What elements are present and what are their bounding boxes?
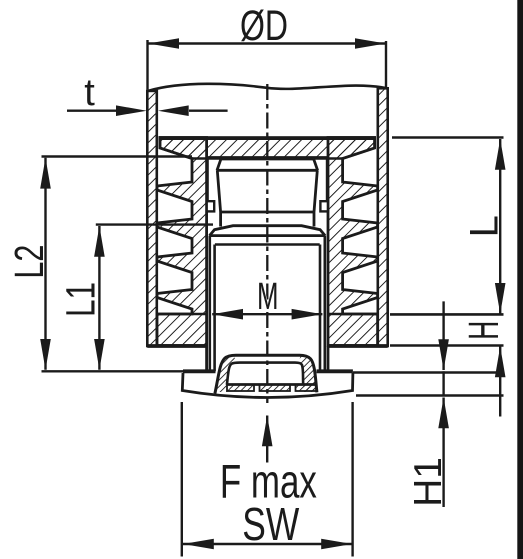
svg-text:ØD: ØD [240,2,288,50]
svg-text:L1: L1 [58,282,104,317]
dim t arrows [116,105,147,116]
dim L line [499,139,501,314]
sleeve lip left [207,201,215,211]
plate top edge (heavy) [183,369,353,373]
threaded stud lines [210,236,325,372]
dim H lower arrow and leader [495,347,506,378]
dim L2 arrows [40,158,51,189]
centerline [266,84,268,403]
socket band hatched segments [227,385,254,392]
tube wall right (hatched section) [378,88,388,346]
dim L1 arrows [94,226,105,257]
svg-text:H1: H1 [407,457,450,507]
block top level lines [157,313,504,316]
foot dome outer [215,355,317,393]
dim H extension line (tube bottom level) [390,344,504,346]
tube/insert bottom edge (heavy) [147,344,387,348]
dim L1 extension line [96,223,213,225]
socket band top line [228,383,317,386]
svg-text:SW: SW [242,498,299,550]
bottom reference line (plate top + extensions) [42,371,504,372]
svg-text:H: H [460,321,508,340]
plate bottom reference line [356,394,504,396]
dim L extension line top right [392,136,504,138]
thread shoulder line [215,243,320,245]
right page border bar [517,0,523,559]
insert left comb (ribs, hatched) [157,138,207,346]
nut skirt [210,226,326,236]
dim ØD extension lines [148,40,387,90]
dim L arrows [495,139,506,170]
svg-text:L: L [462,215,506,237]
dim M line [212,313,322,315]
dim L2 line [44,158,46,370]
foot stem edges [207,346,328,371]
dim L2 extension line [42,155,193,157]
flange top edge (heavy) [159,136,376,140]
dim SW line [183,543,352,545]
sleeve lip right [320,201,328,211]
foot plate (white body) [182,371,353,397]
dome flank hatch left [216,356,237,392]
nut cap (white body) [210,159,326,236]
foot dome inner [227,363,303,385]
dim SW arrows [183,539,214,550]
flange underside ledge line [207,156,328,158]
nut top face [221,157,314,160]
dim ØD arrows [148,38,179,49]
plate thickness chain middle segment [442,371,444,395]
plate thickness chain lower leader [438,398,449,429]
dome flank hatch right [299,356,317,392]
bore wall lines [208,159,328,202]
insert right comb (ribs, hatched) [328,138,378,346]
F max arrow [262,416,273,447]
svg-text:M: M [257,276,279,318]
nut collar line [217,169,319,172]
nut frustum sides [217,170,317,226]
dim M arrows [212,309,243,320]
nut top chamfer edges [217,159,318,171]
dim t lines [67,109,228,111]
dim SW extension lines [182,402,353,557]
foot plate sides and bottom [182,373,353,398]
svg-text:L2: L2 [6,245,52,279]
dim L1 line [98,226,100,370]
tube break line (wavy top edge) [148,84,388,91]
dim ØD line [148,42,386,44]
washer bottom [210,234,326,237]
insert flange (hatched) [160,138,375,159]
tube wall left (hatched section) [147,91,157,346]
svg-text:t: t [84,72,95,114]
plate thickness chain upper leader [442,301,444,370]
